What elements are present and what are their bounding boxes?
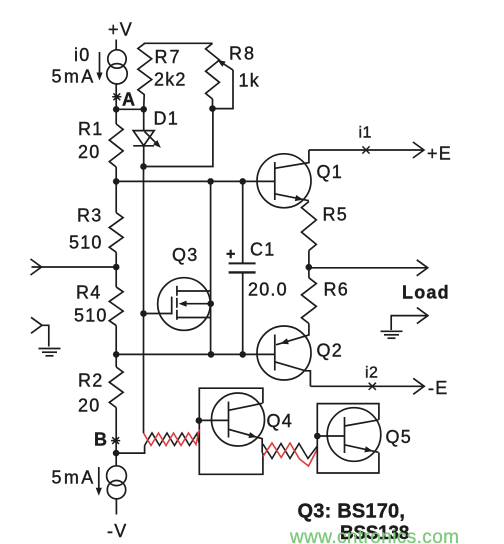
wire top R7 to R8: [144, 42, 213, 44]
resistor R6: [308, 267, 310, 278]
svg-text:20: 20: [78, 396, 100, 416]
svg-text:i1: i1: [359, 125, 372, 142]
svg-text:Q2: Q2: [317, 341, 343, 361]
svg-text:R3: R3: [77, 206, 102, 226]
junction lower rail left: [113, 351, 120, 358]
svg-text:R8: R8: [229, 44, 256, 64]
output wire to load: [309, 267, 428, 269]
wire mid vertical: [210, 181, 212, 354]
capacitor C1: [242, 181, 244, 262]
svg-text:R7: R7: [155, 47, 182, 67]
wire D1 bottom to R8 bottom: [144, 109, 213, 167]
junction load: [306, 264, 313, 271]
wire node A to D1 top: [116, 108, 144, 110]
svg-text:510: 510: [74, 306, 108, 326]
diode D1: [143, 109, 145, 130]
link resistor B-Q4 red: [144, 430, 200, 446]
emitter arrow Q2: [280, 338, 289, 344]
junction lower rail mid: [208, 351, 215, 358]
junction input: [113, 264, 120, 271]
junction node B: [113, 450, 120, 457]
svg-text:1k: 1k: [239, 71, 260, 91]
junction Q3 gate tap: [140, 310, 147, 317]
svg-text:-E: -E: [428, 378, 448, 398]
wire D1 to Q3 gate to zigzag: [143, 167, 145, 434]
junction Q5 base: [314, 433, 321, 440]
transistor Q4: [212, 393, 265, 446]
marker i2: [369, 383, 376, 390]
mosfet Q3: [158, 278, 211, 331]
marker i1: [362, 146, 369, 153]
node B marker: [111, 437, 120, 444]
svg-text:5mA: 5mA: [52, 67, 96, 87]
svg-text:Q4: Q4: [267, 411, 293, 431]
wire i1 to +E: [309, 149, 424, 151]
wire R7 bottom: [143, 95, 146, 109]
current source bottom 5mA: [107, 466, 127, 499]
node A marker: [112, 93, 121, 100]
junction node A: [113, 106, 120, 113]
wire lower rail: [116, 353, 275, 355]
svg-text:2k2: 2k2: [154, 70, 187, 90]
emitter Q1: [275, 194, 309, 201]
current arrow i0: [99, 52, 101, 76]
svg-text:20: 20: [78, 142, 100, 162]
junction D1 top: [140, 106, 147, 113]
svg-text:R5: R5: [323, 205, 348, 225]
junction upper rail left: [113, 178, 120, 185]
svg-text:5mA: 5mA: [52, 468, 96, 488]
wire to -V: [115, 499, 117, 515]
svg-text:510: 510: [69, 233, 103, 253]
collector Q2: [275, 362, 311, 387]
svg-text:R4: R4: [76, 283, 101, 303]
svg-text:Q1: Q1: [317, 162, 343, 182]
svg-text:R6: R6: [324, 280, 349, 300]
ground left: [31, 317, 42, 333]
link resistor Q4-Q5 red: [263, 443, 317, 466]
svg-text:Q3: BS170,: Q3: BS170,: [298, 501, 406, 523]
resistor R2: [115, 354, 117, 367]
wire B to current source: [115, 453, 117, 466]
resistor R1: [115, 109, 117, 124]
svg-text:B: B: [94, 430, 108, 450]
svg-text:+E: +E: [427, 144, 452, 164]
emitter arrow Q4: [248, 432, 257, 438]
transistor Q5: [327, 408, 381, 462]
ground right: [417, 308, 428, 324]
link resistor Q4-Q5 black: [263, 444, 317, 459]
resistor R4: [115, 267, 117, 287]
svg-text:www.cntronics.com: www.cntronics.com: [289, 527, 459, 544]
junction D1 bottom: [140, 163, 147, 170]
wire +V to current source i0: [115, 40, 117, 51]
svg-text:R1: R1: [78, 119, 103, 139]
svg-text:+: +: [226, 246, 236, 263]
svg-text:i2: i2: [365, 365, 378, 382]
emitter arrow Q5: [364, 446, 373, 452]
junction Q4 base: [196, 417, 203, 424]
transistor Q1: [257, 154, 311, 208]
input wire: [32, 266, 117, 268]
transistor Q5 box: [317, 404, 379, 473]
wire i0 to node A: [115, 83, 117, 109]
svg-text:R2: R2: [78, 371, 103, 391]
resistor R5: [302, 202, 317, 251]
wire i2 to -E: [310, 385, 424, 387]
wire B to zigzag: [116, 446, 145, 454]
junction upper rail mid: [207, 178, 214, 185]
rheostat wiper R8: [213, 70, 234, 109]
resistor R7: [138, 43, 152, 95]
current arrow bottom: [98, 467, 100, 491]
wire R8 bottom to junction: [212, 99, 214, 109]
transistor Q2: [257, 326, 311, 380]
junction lower rail C1: [239, 351, 246, 358]
svg-text:Load: Load: [402, 283, 450, 303]
link resistor B-Q4 black: [145, 433, 200, 446]
resistor R8: [206, 43, 220, 99]
svg-text:i0: i0: [74, 45, 90, 65]
junction upper rail C1: [239, 178, 246, 185]
wire upper rail: [116, 180, 275, 182]
junction R8 bottom: [209, 105, 216, 112]
svg-text:C1: C1: [250, 240, 275, 260]
svg-text:A: A: [122, 90, 136, 110]
resistor R3: [115, 181, 117, 212]
transistor Q4 box: [199, 388, 263, 474]
svg-text:20.0: 20.0: [248, 280, 288, 300]
svg-text:D1: D1: [154, 109, 179, 129]
current source i0: [107, 50, 127, 84]
svg-text:Q3: Q3: [172, 245, 198, 265]
svg-text:Q5: Q5: [386, 427, 412, 447]
junction Q3 body tie: [207, 300, 214, 307]
svg-text:+V: +V: [108, 20, 133, 40]
svg-text:-V: -V: [107, 521, 127, 541]
